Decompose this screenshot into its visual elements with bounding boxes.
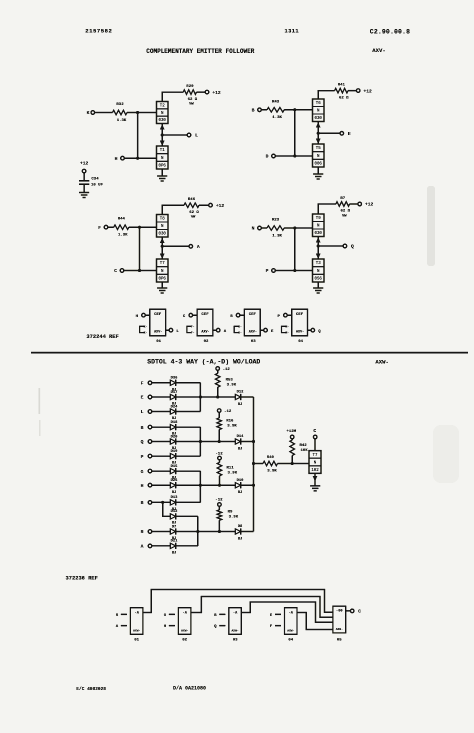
wire resistor R41 to +12 terminal (348, 90, 357, 92)
wire output node to T5 (arrow down) (317, 133, 319, 144)
svg-text:F: F (98, 225, 101, 231)
wire K to resistor R32 (95, 112, 113, 114)
resistor R43 1.3K (267, 108, 284, 113)
wire -12 to resistor R11 (219, 460, 221, 463)
svg-text:Q: Q (141, 439, 144, 445)
wire B to resistor R43 (261, 109, 267, 111)
wire CEF 04 output (308, 329, 312, 331)
node: base junction (block B) (293, 108, 296, 111)
svg-text:B: B (252, 107, 255, 113)
svg-text:CEF: CEF (296, 313, 304, 317)
wire -12 to resistor R9 (218, 506, 220, 510)
svg-text:AXW-: AXW- (231, 630, 238, 633)
svg-text:A: A (197, 244, 200, 250)
svg-text:T1: T1 (160, 149, 165, 153)
node: base column / H junction (136, 157, 139, 160)
svg-text:N: N (252, 226, 255, 232)
wire diode D14 to OR rail (241, 441, 254, 443)
transistor T7 (output, code 102) (309, 451, 321, 474)
svg-text:D-: D- (238, 332, 242, 335)
node: output junction (block B) (317, 132, 320, 135)
wire resistor R44 to base node (129, 226, 140, 228)
svg-text:1.3K: 1.3K (272, 234, 282, 238)
wire base junction to transistor T7 (292, 463, 309, 465)
resistor R40 3.9K (263, 461, 278, 466)
svg-text:-12: -12 (224, 410, 232, 414)
svg-text:3.9K: 3.9K (227, 425, 237, 429)
wire P to base column (275, 270, 295, 272)
wire: block 02 output bus (191, 597, 333, 618)
svg-text:D8: D8 (238, 525, 243, 529)
svg-text:-00: -00 (336, 610, 342, 614)
svg-text:G: G (141, 469, 144, 475)
svg-text:BJ: BJ (172, 491, 177, 495)
svg-text:B: B (141, 500, 144, 506)
terminal +12 (block B collector supply) (356, 89, 360, 93)
svg-text:H: H (141, 483, 144, 489)
wire: block 01 output bus (143, 590, 333, 613)
wire capacitor C34 to ground (83, 184, 85, 192)
svg-text:D12: D12 (237, 391, 245, 395)
capacitor C34 10 UF (79, 180, 89, 182)
svg-text:01: 01 (156, 340, 161, 344)
svg-text:Q: Q (351, 244, 354, 250)
wire N to resistor R23 (261, 227, 267, 229)
resistor R41 62 ohm (335, 88, 348, 93)
svg-text:+12M: +12M (286, 430, 296, 434)
wire base column to T7 base (140, 270, 157, 272)
logic block 05 (-00 / AXW-) (333, 606, 346, 633)
resistor R32 1.3K (113, 110, 128, 115)
svg-text:D-: D- (238, 326, 242, 329)
svg-text:D14: D14 (237, 435, 245, 439)
wire OR rail to resistor R40 (254, 463, 264, 465)
scan artifact: faint smudge right of divider (433, 425, 459, 483)
wire: base node column (block D) (294, 228, 296, 271)
scan artifact: faint smudge right margin (427, 186, 435, 266)
wire -12 to resistor R16 (218, 412, 220, 418)
terminal Q (output, CEF 04) (311, 328, 315, 332)
svg-text:H: H (115, 156, 118, 162)
wire +12 terminal to capacitor C34 (83, 173, 85, 181)
wire: base node column (block B) (294, 110, 296, 156)
diode D26 (170, 483, 175, 488)
svg-text:1311: 1311 (285, 29, 300, 35)
svg-text:D: D (266, 154, 269, 160)
diode D13 (170, 500, 175, 505)
svg-text:R9: R9 (228, 511, 233, 515)
wire output node to terminal Q (318, 245, 343, 247)
wire T6 collector to resistor R41 (318, 91, 334, 99)
ground (block A) (157, 175, 167, 177)
wire: group-1 AND rail (F,E,L) (176, 382, 201, 384)
wire: block 03 output bus (241, 602, 333, 622)
node: output junction (block D) (317, 245, 320, 248)
svg-text:10 UF: 10 UF (91, 184, 104, 188)
node: R11 / gate row junction (218, 484, 221, 487)
ground (output stage) (310, 485, 320, 487)
svg-text:D15: D15 (171, 465, 179, 469)
wire T6 emitter to output node (arrow up) (317, 122, 319, 134)
svg-text:AXW-: AXW- (181, 630, 188, 633)
svg-text:62 Ω: 62 Ω (188, 98, 198, 102)
wire L to diode D24 (152, 411, 171, 413)
svg-text:-12: -12 (215, 452, 223, 456)
svg-text:R16: R16 (226, 420, 234, 424)
wire base node to T6 base (295, 109, 313, 111)
ground (block B) (313, 173, 323, 175)
transistor T5 (code 006) (313, 144, 325, 167)
svg-text:D10: D10 (237, 479, 245, 483)
svg-text:T5: T5 (316, 147, 321, 151)
svg-text:2157582: 2157582 (85, 28, 112, 35)
svg-text:-12: -12 (215, 499, 223, 503)
wire base column to T1 base (138, 157, 157, 159)
node: row-9 input junction (161, 501, 164, 504)
wire C to base column (124, 270, 140, 272)
diode D21 (170, 543, 175, 548)
wire resistor R43 to base node (284, 109, 295, 111)
svg-text:03: 03 (251, 340, 256, 344)
svg-text:AXW-: AXW- (133, 630, 140, 633)
wire T7 emitter to ground (arrow down) (314, 473, 316, 485)
wire resistor R29 to +12 terminal (197, 91, 206, 93)
diode D20 (170, 439, 175, 444)
bracket: second input K- (CEF 01) (140, 326, 144, 332)
wire: group-3 AND rail (G,H,B) (176, 470, 201, 472)
bracket: second input D- (CEF 03) (234, 326, 238, 332)
wire resistor R40 to base junction (278, 463, 293, 465)
wire: base node column (block A) (137, 113, 139, 159)
svg-text:L: L (195, 133, 198, 139)
node: base column / P junction (293, 269, 296, 272)
wire P input to CEF 04 (287, 314, 292, 316)
svg-text:R29: R29 (186, 85, 194, 89)
svg-text:D20: D20 (171, 435, 179, 439)
scan artifact: faint marks left margin (39, 388, 41, 414)
svg-text:BJ: BJ (172, 552, 177, 556)
wire H input to CEF 01 (145, 314, 150, 316)
node: base junction (block A) (136, 111, 139, 114)
wire output node to terminal E (318, 132, 340, 134)
node: base column / D junction (293, 155, 296, 158)
node: group-3 rail junction (199, 484, 202, 487)
wire D to base column (275, 155, 295, 157)
wire B to diode D18 (152, 426, 171, 428)
wire base node to T2 base (138, 112, 157, 114)
svg-text:D13: D13 (171, 496, 179, 500)
wire +12M to resistor R42 (291, 439, 293, 440)
node: output junction (block C) (161, 245, 164, 248)
wire resistor R23 to base node (284, 227, 295, 229)
CEF symbol block 03 (244, 309, 260, 336)
node: base column / C junction (138, 269, 141, 272)
svg-text:K: K (87, 110, 90, 116)
svg-text:C: C (358, 609, 361, 615)
svg-text:C: C (114, 268, 117, 274)
svg-text:T9: T9 (316, 217, 321, 221)
terminal E (output, CEF 03) (264, 328, 268, 332)
wire Q to diode D20 (152, 441, 171, 443)
wire: gate row R to series diode D8 (198, 531, 236, 533)
svg-text:R42: R42 (300, 444, 308, 448)
svg-text:+12: +12 (212, 90, 221, 96)
transistor T3 (code 056) (313, 259, 325, 282)
svg-text:04: 04 (288, 639, 293, 643)
svg-text:030: 030 (315, 232, 323, 236)
wire T5 emitter to ground (317, 167, 319, 174)
CEF symbol block 02 (197, 309, 213, 336)
wire: gate row H to series diode D10 (200, 484, 235, 486)
svg-text:AXW-: AXW- (375, 359, 388, 366)
terminal A (output, block C) (189, 245, 193, 249)
terminal -12 (R53) (216, 367, 220, 371)
svg-text:62 Ω: 62 Ω (189, 211, 199, 215)
svg-text:B: B (141, 425, 144, 431)
svg-text:05: 05 (337, 639, 342, 643)
node: base junction (block C) (138, 226, 141, 229)
wire diode D8 to OR rail (241, 531, 254, 533)
svg-text:D24: D24 (171, 405, 179, 409)
diode D36 (170, 380, 175, 385)
wire B to diode D13 (152, 501, 171, 503)
ground (C34) (79, 192, 89, 194)
wire: group-4 AND rail (D12,R,A) (176, 515, 198, 517)
svg-text:COMPLEMENTARY EMITTER FOLLOWER: COMPLEMENTARY EMITTER FOLLOWER (146, 48, 254, 55)
wire T2 collector to resistor R29 (162, 92, 183, 101)
terminal +12 (block D collector supply) (358, 202, 362, 206)
svg-text:AXV-: AXV- (154, 330, 162, 334)
svg-text:N-: N- (285, 332, 289, 335)
svg-text:D7: D7 (172, 525, 177, 529)
node: OR rail / R40 branch junction (252, 462, 255, 465)
svg-text:P: P (141, 454, 144, 460)
wire block 05 output (346, 610, 351, 612)
diode D8 (series) (235, 529, 240, 534)
svg-text:R32: R32 (116, 103, 124, 107)
wire resistor R42 to base junction (291, 456, 293, 464)
terminal -12 (R11) (218, 456, 222, 460)
wire output node to T3 (arrow down) (317, 246, 319, 259)
svg-text:F: F (141, 381, 144, 387)
wire resistor R7 to +12 terminal (350, 203, 358, 205)
transistor T2 (NPN, code 030) (157, 102, 169, 124)
resistor R11 3.9K (vertical) (217, 462, 222, 476)
svg-text:CEF: CEF (201, 313, 209, 317)
svg-text:+12: +12 (216, 203, 225, 209)
svg-text:R7: R7 (340, 197, 345, 201)
svg-text:D18: D18 (171, 421, 179, 425)
svg-text:AXW-: AXW- (287, 630, 294, 633)
wire -12 to resistor R53 (217, 370, 219, 373)
terminal +12 (block A collector supply) (205, 90, 209, 94)
node: group-1 rail junction (199, 396, 202, 399)
bracket: second input F- (CEF 02) (187, 326, 191, 332)
node: group-4 rail junction (196, 530, 199, 533)
svg-text:-12: -12 (223, 368, 231, 372)
svg-text:62 Ω: 62 Ω (339, 96, 349, 100)
wire CEF 03 output (260, 329, 264, 331)
svg-text:10K: 10K (301, 449, 309, 453)
svg-text:0P6: 0P6 (159, 165, 167, 169)
svg-text:D17: D17 (171, 391, 179, 395)
svg-text:D19: D19 (171, 450, 179, 454)
logic block 04 (-A / AXW-) (285, 608, 298, 635)
svg-text:D36: D36 (171, 377, 179, 381)
svg-text:F-: F- (191, 332, 195, 335)
svg-text:R: R (141, 529, 144, 535)
ground (block C) (157, 287, 167, 289)
node: OR rail / D14 junction (252, 440, 255, 443)
svg-text:372236 REF: 372236 REF (66, 575, 98, 581)
svg-text:D21: D21 (171, 540, 179, 544)
resistor R16 3.9K (vertical) (217, 418, 222, 430)
wire resistor R9 to gate row (218, 520, 220, 531)
svg-text:L: L (141, 409, 144, 415)
diode D18 (170, 424, 175, 429)
terminal C (output) (313, 435, 317, 439)
svg-text:AXW-: AXW- (336, 628, 343, 631)
wire resistor R16 to gate row (218, 430, 220, 442)
svg-text:BJ: BJ (238, 537, 243, 541)
svg-text:CEF: CEF (249, 313, 257, 317)
svg-text:01: 01 (134, 639, 139, 643)
wire: gate row E to series diode D12 (200, 396, 235, 398)
svg-text:+12: +12 (80, 161, 89, 167)
CEF symbol block 04 (292, 309, 308, 336)
resistor R7 62 ohm (336, 202, 350, 207)
svg-text:102: 102 (311, 469, 319, 473)
svg-text:T6: T6 (316, 102, 321, 106)
diode D14 (series) (235, 439, 240, 444)
transistor T8 (NPN, code 030) (157, 215, 169, 238)
wire output node to terminal A (162, 245, 189, 247)
svg-text:BJ: BJ (238, 403, 243, 407)
svg-text:02: 02 (182, 639, 187, 643)
terminal Q (output, block D) (343, 244, 347, 248)
svg-text:04: 04 (298, 340, 303, 344)
svg-text:3.9K: 3.9K (267, 470, 277, 474)
svg-text:03: 03 (233, 639, 238, 643)
wire P to diode D19 (152, 455, 171, 457)
diode D12 (lower, row-9 jog) (170, 514, 175, 519)
ground (block D) (313, 287, 323, 289)
node: group-2 rail junction (199, 440, 202, 443)
wire T9 collector to resistor R7 (318, 204, 336, 214)
svg-text:1.3K: 1.3K (272, 116, 282, 120)
resistor R9 3.9K (vertical) (217, 510, 222, 521)
wire: OR rail (vertical) (253, 397, 255, 532)
svg-text:1.3K: 1.3K (117, 119, 127, 123)
svg-text:006: 006 (315, 163, 323, 167)
wire diode D10 to OR rail (241, 484, 254, 486)
svg-text:BJ: BJ (172, 522, 177, 526)
wire T9 emitter to output node (arrow up) (317, 237, 319, 247)
svg-text:3.9K: 3.9K (227, 384, 237, 388)
svg-text:BJ: BJ (238, 447, 243, 451)
wire T7 emitter to ground (161, 282, 163, 288)
svg-text:AXV-: AXV- (296, 330, 304, 334)
wire: block 04 output to block 05 (297, 613, 333, 630)
svg-text:N-: N- (285, 326, 289, 329)
svg-text:CEF: CEF (154, 313, 162, 317)
wire base node to T8 base (140, 226, 157, 228)
svg-text:AXV-: AXV- (372, 47, 385, 54)
wire: gate row Q to series diode D14 (200, 441, 235, 443)
wire resistor R53 to gate row (217, 387, 219, 397)
wire T7 collector to terminal C (314, 439, 316, 451)
node: R9 / gate row junction (218, 530, 221, 533)
svg-text:C: C (313, 428, 316, 434)
wire T1 emitter to ground (161, 169, 163, 176)
diode D17 (170, 394, 175, 399)
svg-text:E: E (141, 395, 144, 401)
svg-text:P: P (266, 268, 269, 274)
diode D12 (series) (235, 394, 240, 399)
terminal C (final output) (350, 609, 354, 613)
wire CEF 01 output (166, 329, 170, 331)
svg-text:R11: R11 (227, 467, 235, 471)
svg-text:0P6: 0P6 (159, 278, 167, 282)
wire output node to T7 (arrow down) (161, 246, 163, 259)
svg-text:R46: R46 (188, 198, 196, 202)
svg-text:A: A (141, 544, 144, 550)
svg-text:AXV-: AXV- (201, 330, 209, 334)
svg-text:R41: R41 (338, 83, 346, 87)
diode D7 (170, 529, 175, 534)
wire CEF 02 output (213, 329, 217, 331)
bracket: second input N- (CEF 04) (282, 326, 286, 332)
svg-text:1.3K: 1.3K (118, 234, 128, 238)
svg-text:D/A 0A21080: D/A 0A21080 (173, 685, 206, 691)
svg-text:62 Ω: 62 Ω (340, 210, 350, 214)
wire G to diode D15 (152, 470, 171, 472)
diode D19 (170, 453, 175, 458)
transistor T9 (NPN, code 030) (313, 214, 325, 237)
logic block 03 (-A / AXW-) (229, 608, 242, 635)
wire T8 emitter to output node (arrow up) (161, 237, 163, 246)
wire output node to terminal L (162, 134, 187, 136)
wire T8 collector to resistor R46 (162, 205, 184, 214)
node: output junction (block A) (161, 134, 164, 137)
svg-text:D12: D12 (171, 510, 179, 514)
svg-text:R43: R43 (272, 100, 280, 104)
wire H to base column (124, 157, 137, 159)
resistor R44 1.3K (114, 225, 129, 230)
svg-text:T3: T3 (316, 262, 321, 266)
wire F to resistor R44 (108, 226, 114, 228)
wire T2 emitter to output node (arrow up) (161, 124, 163, 136)
resistor R46 62 ohm (184, 203, 199, 208)
svg-text:R23: R23 (272, 219, 280, 223)
wire E to diode D17 (152, 396, 171, 398)
node: output transistor base junction (291, 462, 294, 465)
svg-text:R40: R40 (267, 456, 275, 460)
node: OR rail / D10 junction (252, 484, 255, 487)
wire B input to CEF 03 (240, 314, 245, 316)
logic block 02 (-A / AXW-) (178, 608, 191, 635)
terminal +12 (block C collector supply) (209, 203, 213, 207)
divider line between the two schematics (31, 352, 468, 354)
svg-text:K-: K- (144, 326, 148, 329)
wire: group-2 AND rail (B,Q,P) (176, 426, 201, 428)
wire H to diode D26 (152, 484, 171, 486)
svg-text:T2: T2 (160, 105, 165, 109)
svg-text:056: 056 (315, 278, 323, 282)
svg-text:C34: C34 (91, 178, 99, 182)
node: R53 / gate row junction (216, 396, 219, 399)
wire base column to T5 base (295, 155, 313, 157)
